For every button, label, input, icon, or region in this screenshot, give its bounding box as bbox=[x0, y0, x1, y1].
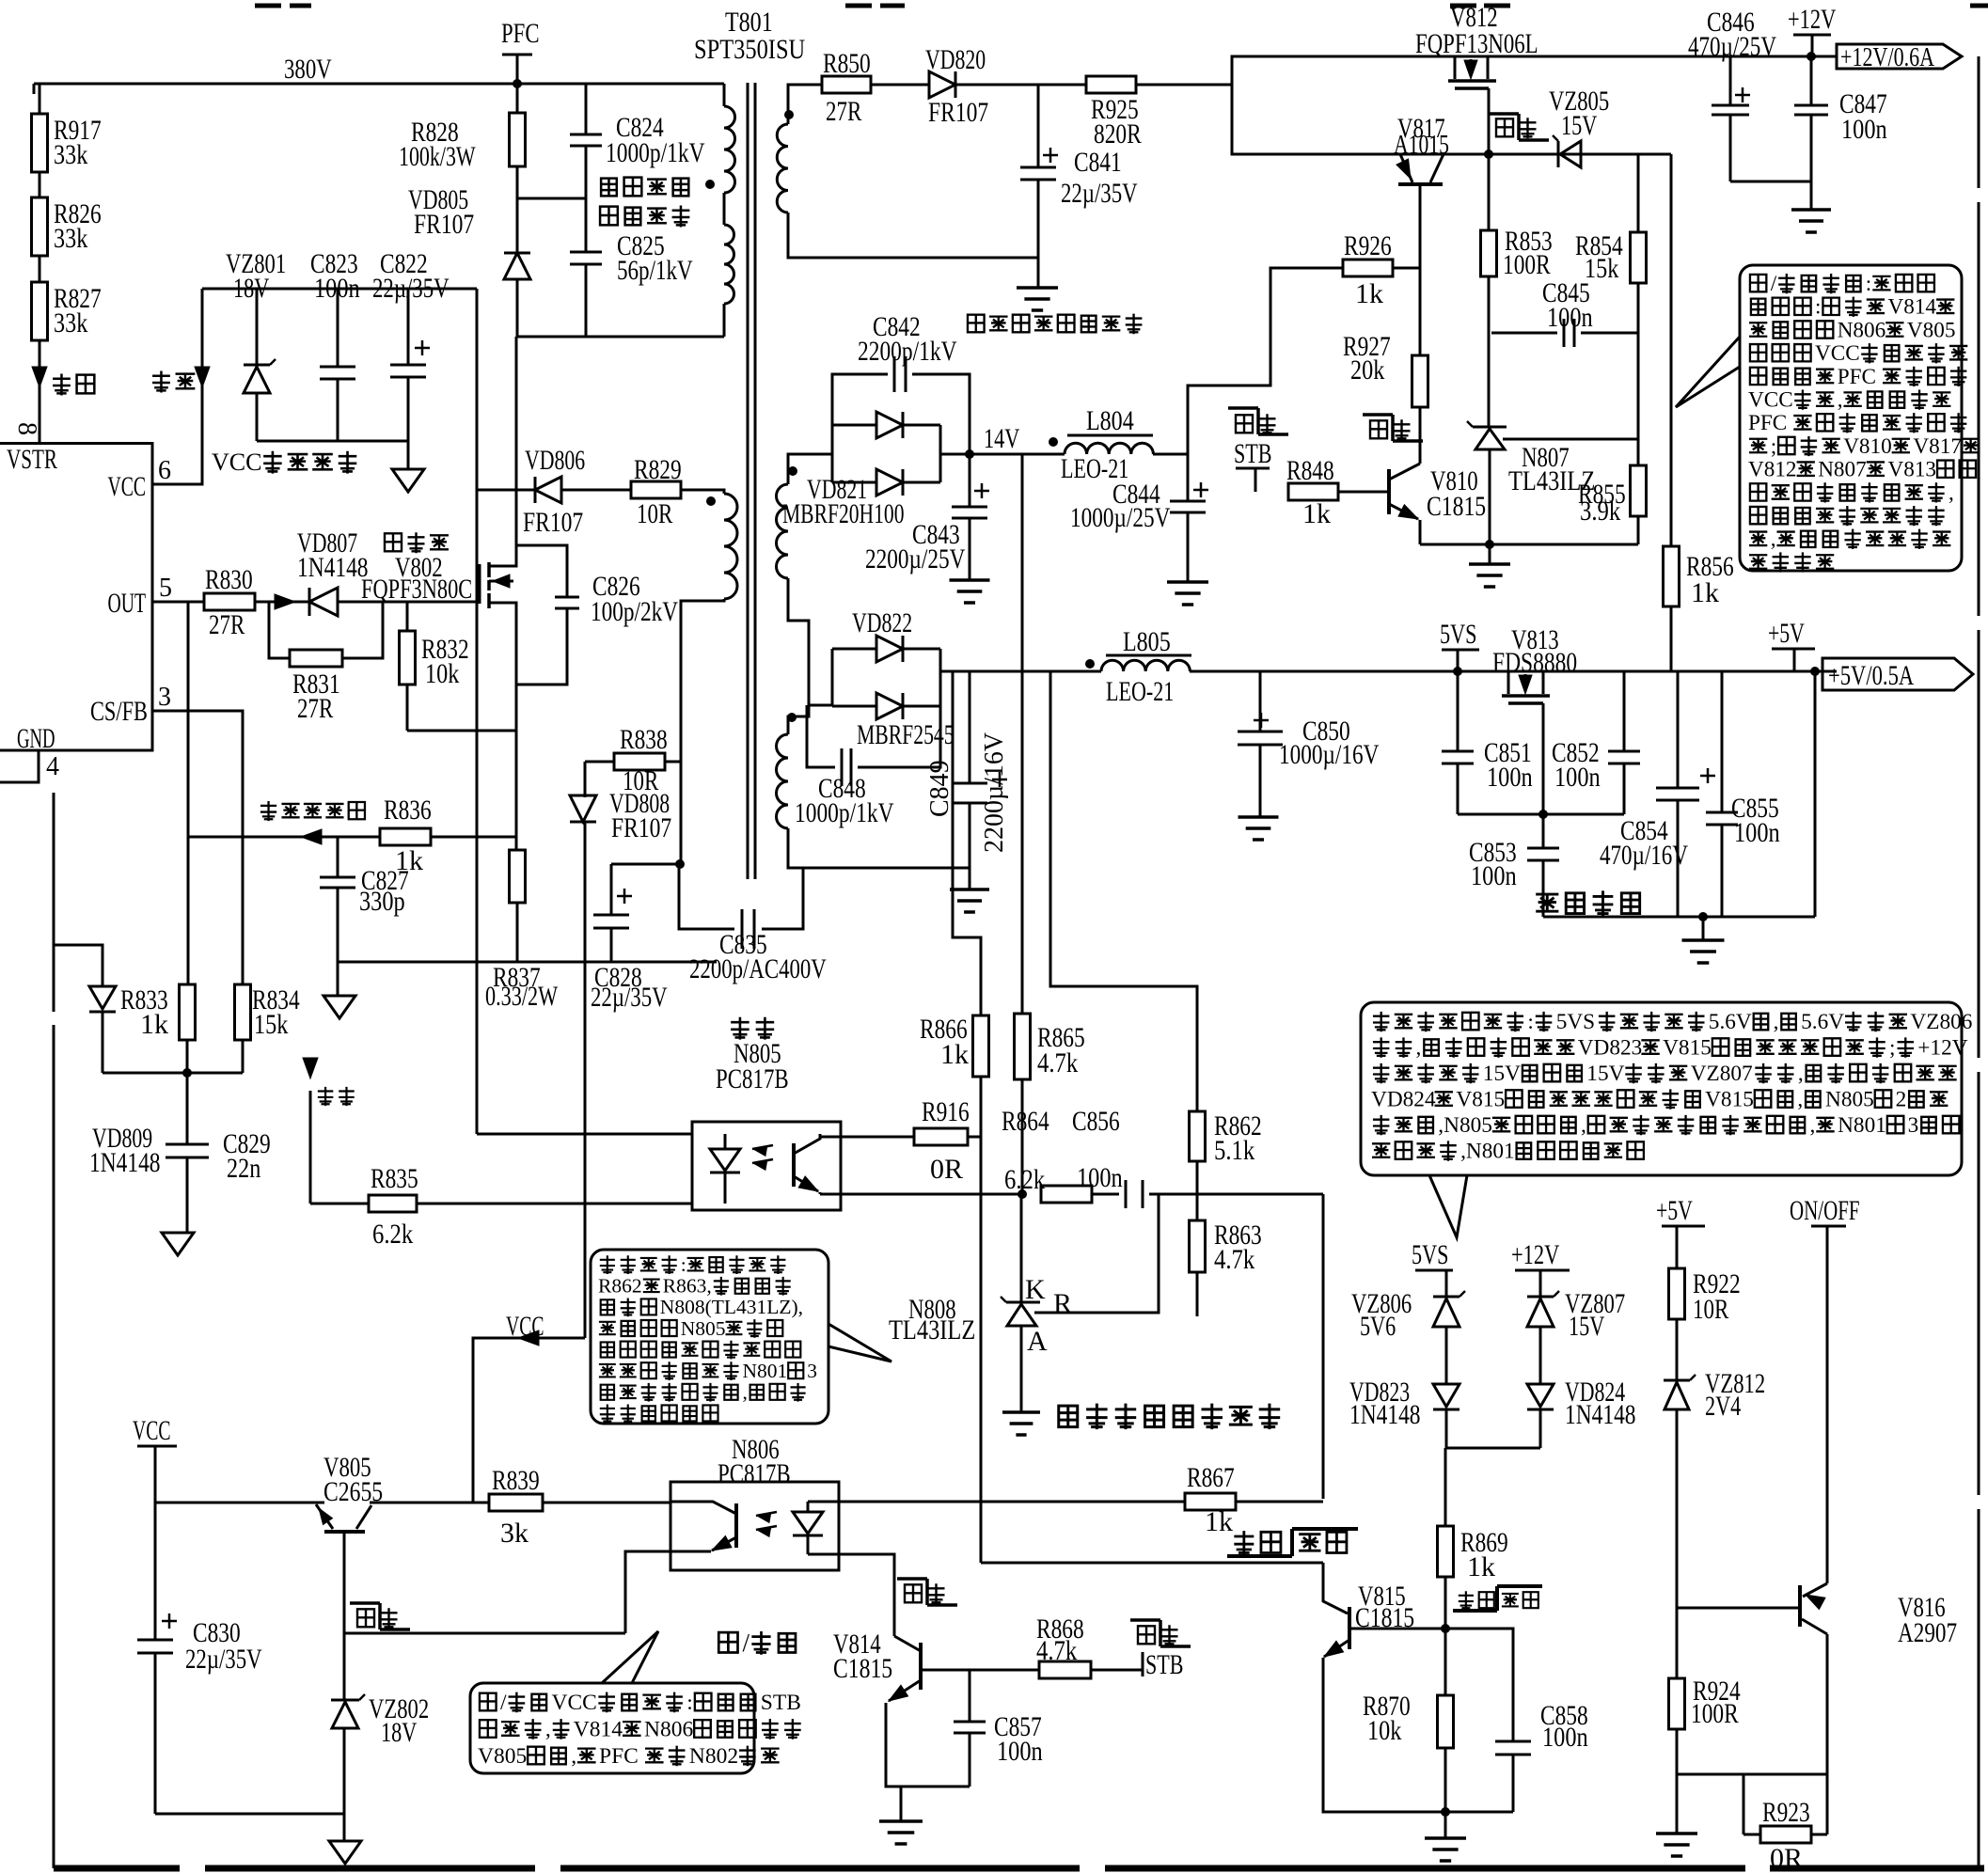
svg-text:PC817B: PC817B bbox=[716, 1063, 789, 1094]
svg-text:2: 2 bbox=[1896, 1088, 1907, 1112]
svg-text:+12V: +12V bbox=[1788, 4, 1837, 35]
svg-text:R838: R838 bbox=[620, 724, 668, 755]
phase dot L805 bbox=[1085, 659, 1095, 669]
phase dot L804 bbox=[1049, 437, 1058, 447]
wire R826-R827 bbox=[39, 256, 41, 282]
svg-text:33k: 33k bbox=[54, 307, 87, 338]
primary winding P1 lower bbox=[724, 225, 734, 304]
svg-text:,: , bbox=[1810, 1113, 1816, 1138]
wire R926 right bbox=[1393, 267, 1420, 270]
svg-text:100n: 100n bbox=[1077, 1162, 1123, 1193]
svg-text:100n: 100n bbox=[1547, 302, 1593, 333]
svg-text:330p: 330p bbox=[359, 886, 405, 917]
diode VD823 bbox=[1433, 1384, 1459, 1407]
svg-text:STB: STB bbox=[1145, 1649, 1184, 1680]
capacitor C857 bbox=[969, 1670, 971, 1722]
wire VD806 anode side bbox=[477, 489, 535, 492]
wire V812 gate down bbox=[1488, 88, 1491, 154]
svg-text:V813: V813 bbox=[1888, 458, 1937, 482]
svg-text:5VS: 5VS bbox=[1412, 1239, 1448, 1270]
zener VZ801 bbox=[244, 364, 270, 367]
annotation box 过电压保护电路 bbox=[1361, 1002, 1962, 1175]
svg-text:,: , bbox=[545, 1718, 551, 1742]
svg-text:VSTR: VSTR bbox=[7, 444, 57, 475]
label 待机控制 bbox=[1536, 894, 1558, 911]
svg-text:20k: 20k bbox=[1350, 354, 1384, 386]
svg-text:5.1k: 5.1k bbox=[1214, 1135, 1254, 1166]
capacitor C850 (electrolytic) bbox=[1259, 671, 1262, 732]
svg-text:,: , bbox=[1771, 527, 1776, 552]
wire primary ground rail bbox=[338, 961, 717, 964]
label 启动 bbox=[53, 374, 71, 396]
svg-text:,: , bbox=[571, 1744, 576, 1769]
svg-text:1000µ/16V: 1000µ/16V bbox=[1279, 739, 1380, 770]
capacitor C848 snubber bbox=[807, 705, 835, 767]
wire R828-VD805 row bbox=[516, 166, 519, 254]
diode VD821a bbox=[832, 424, 876, 427]
annotation box 开/关机控制 bbox=[1740, 265, 1962, 571]
svg-text:+5V: +5V bbox=[1768, 618, 1805, 649]
wire R838 row bbox=[585, 761, 614, 763]
wire OUT sample column bbox=[187, 602, 190, 984]
svg-text::: : bbox=[681, 1253, 686, 1276]
ground (V810/N807) bbox=[1489, 544, 1491, 564]
capacitor C822 (electrolytic) bbox=[390, 364, 426, 367]
svg-text:VCC: VCC bbox=[108, 471, 147, 502]
diode VD805 bbox=[504, 253, 530, 279]
svg-text:/: / bbox=[500, 1691, 507, 1715]
wire C851-C853 row bbox=[1458, 813, 1624, 816]
svg-text:100n: 100n bbox=[1841, 114, 1887, 145]
wire S0 top bbox=[788, 85, 822, 124]
svg-text:4.7k: 4.7k bbox=[1214, 1244, 1254, 1275]
svg-text:470µ/25V: 470µ/25V bbox=[1688, 31, 1776, 62]
svg-text:22µ/35V: 22µ/35V bbox=[1061, 178, 1138, 209]
resistor R836 bbox=[380, 828, 431, 845]
svg-text:PC817B: PC817B bbox=[718, 1458, 791, 1489]
svg-text:FR107: FR107 bbox=[523, 507, 583, 538]
svg-text:ON/OFF: ON/OFF bbox=[1790, 1195, 1860, 1226]
svg-text:33k: 33k bbox=[54, 139, 87, 170]
resistor R828 bbox=[510, 113, 526, 166]
callout pointer 过电压保护 bbox=[1429, 1175, 1467, 1237]
svg-text:2200µ/25V: 2200µ/25V bbox=[865, 543, 966, 574]
diode VD821b bbox=[832, 481, 876, 484]
svg-text:VD820: VD820 bbox=[925, 44, 986, 75]
ground (C847) bbox=[1791, 208, 1831, 212]
wire N808 anode bbox=[1020, 1326, 1023, 1412]
resistor R926 bbox=[1343, 260, 1393, 276]
wire snubber bottom row bbox=[517, 336, 724, 338]
svg-text:C1815: C1815 bbox=[1427, 491, 1486, 522]
svg-text:1000p/1kV: 1000p/1kV bbox=[795, 797, 894, 828]
svg-text:100n: 100n bbox=[1554, 762, 1601, 793]
svg-text:GND: GND bbox=[17, 723, 55, 754]
svg-text:VZ806: VZ806 bbox=[1910, 1010, 1972, 1034]
secondary winding S0 (+12V) bbox=[777, 124, 788, 212]
wire C830 gnd row bbox=[155, 1813, 344, 1816]
svg-text:VD806: VD806 bbox=[525, 445, 585, 476]
wire C823 top bbox=[337, 289, 339, 367]
wire VZ807-VD824 bbox=[1539, 1327, 1542, 1384]
diode VD822b bbox=[832, 705, 876, 708]
svg-text:100n: 100n bbox=[1487, 762, 1533, 793]
label 开关 (V810) bbox=[1370, 420, 1387, 438]
svg-text:27R: 27R bbox=[826, 96, 861, 127]
wire R868 to STB bbox=[1091, 1669, 1143, 1672]
capacitor C855 bbox=[1721, 671, 1724, 812]
wire VD808 to VCC takeoff bbox=[584, 822, 587, 1338]
annotation box 稳压电路 bbox=[591, 1250, 828, 1424]
junction dot 5VS bbox=[1453, 667, 1462, 676]
svg-text:R835: R835 bbox=[371, 1163, 418, 1194]
junction dot FB node bbox=[1018, 1189, 1027, 1199]
svg-text:VCC: VCC bbox=[1748, 388, 1793, 413]
capacitor C827 bbox=[320, 876, 355, 879]
capacitor C835 (Y-cap) bbox=[679, 864, 734, 929]
capacitor C830 (electrolytic) bbox=[154, 1503, 157, 1640]
svg-text:V805: V805 bbox=[1907, 318, 1956, 342]
svg-text:VD822: VD822 bbox=[852, 607, 912, 638]
svg-text::: : bbox=[1527, 1010, 1533, 1034]
svg-text:C841: C841 bbox=[1074, 147, 1122, 178]
wire C822 bottom bbox=[407, 377, 410, 441]
wire VD809 bottom bbox=[102, 1012, 104, 1073]
resistor R867 bbox=[1185, 1493, 1236, 1510]
svg-text::: : bbox=[1815, 295, 1821, 320]
svg-text:1N4148: 1N4148 bbox=[89, 1147, 161, 1178]
svg-text:N802: N802 bbox=[689, 1744, 738, 1769]
wire R839 to N806 bbox=[543, 1502, 671, 1504]
resistor R862 bbox=[1190, 1111, 1206, 1161]
wire VCC takeoff bbox=[473, 1338, 585, 1503]
svg-text:R862: R862 bbox=[598, 1275, 642, 1298]
wire N806 cathode out bbox=[808, 1553, 839, 1556]
svg-text:N801: N801 bbox=[1838, 1113, 1886, 1138]
diode VD808 bbox=[570, 795, 596, 822]
ground (C841) bbox=[1017, 286, 1058, 290]
wire R831 right leg bbox=[342, 602, 383, 658]
svg-text:470µ/16V: 470µ/16V bbox=[1600, 840, 1688, 871]
svg-text::: : bbox=[1866, 272, 1871, 296]
svg-text:N805: N805 bbox=[1825, 1088, 1874, 1112]
page border top dashes bbox=[255, 4, 281, 8]
wire C822 top bbox=[407, 289, 410, 365]
svg-text:100n: 100n bbox=[997, 1736, 1043, 1767]
svg-text:1k: 1k bbox=[1302, 498, 1331, 529]
capacitor C824 bbox=[570, 134, 602, 136]
wire ON/OFF stub bbox=[1826, 1226, 1829, 1583]
capacitor C856 bbox=[1092, 1193, 1119, 1196]
svg-text:R926: R926 bbox=[1344, 230, 1392, 261]
svg-text:5: 5 bbox=[159, 574, 172, 603]
svg-text:FQPF3N80C: FQPF3N80C bbox=[361, 574, 472, 605]
wire VD822 right node bbox=[939, 649, 942, 706]
capacitor C843 (electrolytic) bbox=[969, 454, 971, 507]
wire R924 bottom bbox=[1676, 1729, 1679, 1774]
wire sample bottom row bbox=[103, 1072, 243, 1075]
ground (VCC supply) bbox=[392, 469, 424, 492]
wire +5V stub bbox=[1793, 649, 1796, 671]
resistor R839 bbox=[489, 1494, 543, 1511]
resistor R924 bbox=[1669, 1678, 1685, 1729]
svg-text:R864: R864 bbox=[1002, 1106, 1049, 1137]
wire C825 bottom bbox=[585, 264, 588, 337]
wire VZ801 top lead bbox=[256, 289, 259, 365]
wire S2 top to tap bbox=[788, 705, 809, 734]
svg-text:L804: L804 bbox=[1086, 405, 1134, 436]
annotation box 开/关机VCC控制电路 bbox=[470, 1683, 754, 1773]
svg-text:4: 4 bbox=[46, 752, 59, 781]
svg-text:27R: 27R bbox=[209, 609, 245, 640]
wire +12V stub bbox=[1811, 35, 1814, 56]
svg-text:22n: 22n bbox=[227, 1153, 260, 1184]
svg-text:FQPF13N06L: FQPF13N06L bbox=[1415, 28, 1538, 59]
svg-text:FDS8880: FDS8880 bbox=[1492, 647, 1577, 678]
svg-text:,N805: ,N805 bbox=[1438, 1113, 1492, 1138]
wire C854 column bbox=[1677, 671, 1680, 788]
ground (standby) bbox=[1702, 917, 1705, 940]
wire aux bottom bbox=[681, 599, 724, 864]
svg-text:OUT: OUT bbox=[108, 588, 147, 619]
transformer core bbox=[747, 83, 749, 879]
wire 5VS rail bbox=[1190, 670, 1837, 673]
wire R850-VD820 bbox=[871, 84, 929, 87]
capacitor C851 bbox=[1457, 671, 1459, 751]
svg-text:;: ; bbox=[1771, 434, 1776, 459]
wire source row bbox=[407, 730, 516, 732]
wire R863 top/bottom bbox=[1196, 1272, 1199, 1316]
wire N806 anode to R867 bbox=[839, 1501, 1185, 1503]
page border left bbox=[53, 793, 55, 1012]
label 开关 (V814 collector) bbox=[905, 1584, 922, 1602]
label 供电 bbox=[152, 371, 170, 393]
svg-text:;: ; bbox=[1889, 1036, 1895, 1061]
svg-text:+12V/0.6A: +12V/0.6A bbox=[1840, 42, 1934, 72]
svg-text:VCC: VCC bbox=[212, 449, 261, 476]
svg-text:3.9k: 3.9k bbox=[1580, 496, 1620, 527]
ground (R924) bbox=[1676, 1774, 1679, 1834]
resistor R833 bbox=[180, 984, 196, 1040]
resistor R917 bbox=[32, 114, 48, 172]
wire VCC rect column bbox=[476, 289, 479, 490]
svg-text:100n: 100n bbox=[1734, 817, 1780, 848]
optocoupler N806 box bbox=[671, 1482, 839, 1570]
wire STB stub bbox=[1254, 468, 1257, 492]
wire 14V rail bbox=[940, 453, 1065, 456]
svg-text:6.2k: 6.2k bbox=[1004, 1164, 1045, 1195]
wire VD805 bottom bbox=[516, 279, 519, 337]
svg-text:SPT350ISU: SPT350ISU bbox=[694, 34, 805, 65]
svg-text:100p/2kV: 100p/2kV bbox=[591, 596, 678, 627]
svg-text:CS/FB: CS/FB bbox=[90, 696, 148, 727]
wire 380V left hook bbox=[33, 84, 36, 94]
svg-text:V814: V814 bbox=[574, 1718, 623, 1742]
capacitor C841 (electrolytic) bbox=[1020, 166, 1056, 169]
svg-text:2200p/1kV: 2200p/1kV bbox=[858, 336, 957, 367]
wire C828 top row bbox=[611, 863, 680, 866]
svg-text:0R: 0R bbox=[1770, 1843, 1803, 1873]
svg-text:R850: R850 bbox=[823, 48, 871, 79]
svg-text:V817: V817 bbox=[1913, 434, 1962, 459]
svg-text:3k: 3k bbox=[500, 1518, 529, 1549]
arrow startup bbox=[32, 367, 47, 387]
svg-text:V814: V814 bbox=[1888, 295, 1937, 320]
svg-text:PFC: PFC bbox=[1838, 365, 1876, 389]
wire S0 bottom bbox=[788, 212, 1038, 258]
N805 LED arrows bbox=[752, 1145, 773, 1149]
svg-text:5VS: 5VS bbox=[1556, 1010, 1595, 1034]
wire primary top bbox=[723, 84, 726, 106]
svg-text:R863,: R863, bbox=[663, 1275, 712, 1298]
svg-text:15V: 15V bbox=[1569, 1311, 1605, 1342]
svg-text:15V: 15V bbox=[1483, 1062, 1521, 1086]
label 二次整流滤波电路 bbox=[968, 315, 985, 333]
pin 4 wire bbox=[0, 750, 39, 782]
junction dot standby gnd bbox=[1698, 912, 1708, 921]
phase dot S2 bbox=[787, 713, 797, 722]
wire R867 riser bbox=[1322, 1194, 1325, 1499]
resistor R838 bbox=[614, 753, 665, 770]
svg-text:STB: STB bbox=[761, 1691, 801, 1715]
zener VZ805 bbox=[1557, 141, 1560, 167]
svg-text:1k: 1k bbox=[940, 1039, 969, 1070]
resistor R830 bbox=[204, 593, 255, 610]
wire R837 bottom bbox=[516, 903, 519, 962]
label 开关管/V802 bbox=[385, 533, 402, 551]
svg-text:15k: 15k bbox=[254, 1009, 288, 1040]
svg-text:N808(TL431LZ),: N808(TL431LZ), bbox=[660, 1296, 803, 1318]
wire V814 base bbox=[921, 1669, 1039, 1672]
svg-text:1N4148: 1N4148 bbox=[297, 552, 369, 583]
label 尖峰脉冲吸收电路 bbox=[601, 179, 617, 197]
junction dot +5V bbox=[1810, 667, 1820, 676]
svg-text:1k: 1k bbox=[1691, 577, 1719, 608]
wire VZ806-VD823 bbox=[1445, 1327, 1448, 1384]
svg-text:1000p/1kV: 1000p/1kV bbox=[606, 137, 705, 168]
capacitor C823 bbox=[320, 366, 355, 369]
wire V816 base row bbox=[1677, 1607, 1800, 1610]
svg-text:1k: 1k bbox=[140, 1009, 168, 1040]
label 开关 STB bbox=[1236, 415, 1253, 433]
optocoupler N805 box bbox=[692, 1122, 841, 1210]
svg-text:+5V: +5V bbox=[1656, 1195, 1693, 1226]
primary winding P1 upper bbox=[724, 106, 735, 193]
resistor R927 bbox=[1412, 355, 1428, 407]
svg-text:FR107: FR107 bbox=[414, 209, 474, 240]
svg-text:L805: L805 bbox=[1123, 626, 1171, 657]
label 开关 STB (V814) bbox=[1138, 1626, 1155, 1644]
resistor R855 bbox=[1631, 465, 1647, 516]
resistor R916 bbox=[914, 1128, 968, 1145]
svg-text:PFC: PFC bbox=[1748, 411, 1787, 435]
wire VCC supply rail bbox=[202, 288, 477, 291]
wire PFC stub bbox=[516, 55, 519, 113]
wire R866 bottom bbox=[980, 1077, 983, 1137]
wire stab column from VCC rail bbox=[476, 490, 479, 1134]
label 稳压 arrow bbox=[303, 1058, 318, 1078]
wire VD824 bottom bbox=[1539, 1409, 1542, 1448]
svg-text:VD824: VD824 bbox=[1371, 1088, 1436, 1112]
junction dot R833 bbox=[182, 1068, 192, 1078]
resistor R829 bbox=[631, 481, 681, 498]
wire VCC pin 6 bbox=[152, 289, 202, 484]
svg-text:,: , bbox=[1774, 1010, 1779, 1034]
resistor R866 bbox=[953, 671, 981, 1015]
wire VD807-gate bbox=[338, 601, 480, 604]
diode VD809 bbox=[89, 986, 116, 1009]
callout pointer VCC控制 bbox=[602, 1631, 658, 1683]
flag +5V/0.5A bbox=[1822, 658, 1973, 690]
zener VZ812 bbox=[1664, 1379, 1690, 1382]
wire N807 ref bbox=[1503, 438, 1638, 441]
diode VD806 bbox=[535, 477, 561, 503]
wire R836 to source node bbox=[431, 836, 516, 839]
svg-text:18V: 18V bbox=[233, 273, 270, 304]
junction dot gnd node bbox=[1441, 1807, 1450, 1817]
junction dot C847 bbox=[1807, 52, 1816, 61]
junction dot N807 anode bbox=[1485, 540, 1494, 549]
resistor R856 bbox=[1670, 154, 1673, 546]
svg-text:3: 3 bbox=[807, 1360, 817, 1382]
svg-text:V815: V815 bbox=[1705, 1088, 1754, 1112]
wire C829 bottom bbox=[186, 1157, 189, 1233]
wire to ground bbox=[407, 441, 410, 469]
svg-text:1000µ/25V: 1000µ/25V bbox=[1070, 502, 1171, 533]
wire V816 collector bbox=[1826, 1634, 1829, 1774]
wire OVP junction row bbox=[1446, 1447, 1540, 1450]
wire C827 top bbox=[337, 837, 339, 877]
wire protect column bbox=[980, 1137, 983, 1563]
resistor R853 bbox=[1488, 154, 1491, 230]
MOSFET V802 gate bar bbox=[479, 564, 481, 604]
label 过电流保护 bbox=[260, 801, 276, 821]
wire standby gnd rail bbox=[1543, 916, 1815, 919]
wire R862-R863 bbox=[1196, 1161, 1199, 1220]
arrow 过电流保护 bbox=[301, 829, 322, 844]
label 稳压 N805 bbox=[731, 1017, 749, 1040]
wire primary bottom bbox=[723, 304, 726, 337]
wire N808 cathode bbox=[1020, 1194, 1023, 1302]
diode VD820 bbox=[929, 71, 955, 98]
wire R865 bottom bbox=[1021, 1079, 1024, 1194]
wire C824 top bbox=[585, 84, 588, 134]
svg-text:3: 3 bbox=[1908, 1113, 1919, 1138]
label 正常保护 (V815) bbox=[1459, 1591, 1474, 1610]
ground (C850) bbox=[1239, 815, 1279, 819]
wire 5VS rail tap down bbox=[1050, 671, 1197, 1111]
svg-text:2200µ/16V: 2200µ/16V bbox=[980, 732, 1009, 853]
junction dot aux return bbox=[675, 859, 685, 869]
resistor R837 bbox=[510, 850, 526, 903]
svg-text:VCC: VCC bbox=[133, 1415, 171, 1446]
svg-text:V805: V805 bbox=[478, 1744, 527, 1769]
wire VD806 to R829 bbox=[561, 489, 631, 492]
svg-text:5.6V: 5.6V bbox=[1801, 1010, 1844, 1034]
capacitor C852 bbox=[1623, 671, 1626, 751]
svg-text:100n: 100n bbox=[1542, 1722, 1588, 1753]
svg-text:820R: 820R bbox=[1094, 118, 1142, 150]
capacitor C847 bbox=[1810, 56, 1813, 105]
svg-text:100n: 100n bbox=[1471, 860, 1517, 891]
resistor R834 bbox=[235, 984, 251, 1040]
capacitor C853 bbox=[1542, 814, 1545, 848]
wire aux top bbox=[681, 490, 724, 494]
aux winding P2 bbox=[724, 494, 737, 599]
wire S2 bottom bbox=[788, 828, 970, 868]
capacitor C849 (electrolytic) bbox=[969, 671, 971, 783]
svg-text:V815: V815 bbox=[1663, 1036, 1712, 1061]
